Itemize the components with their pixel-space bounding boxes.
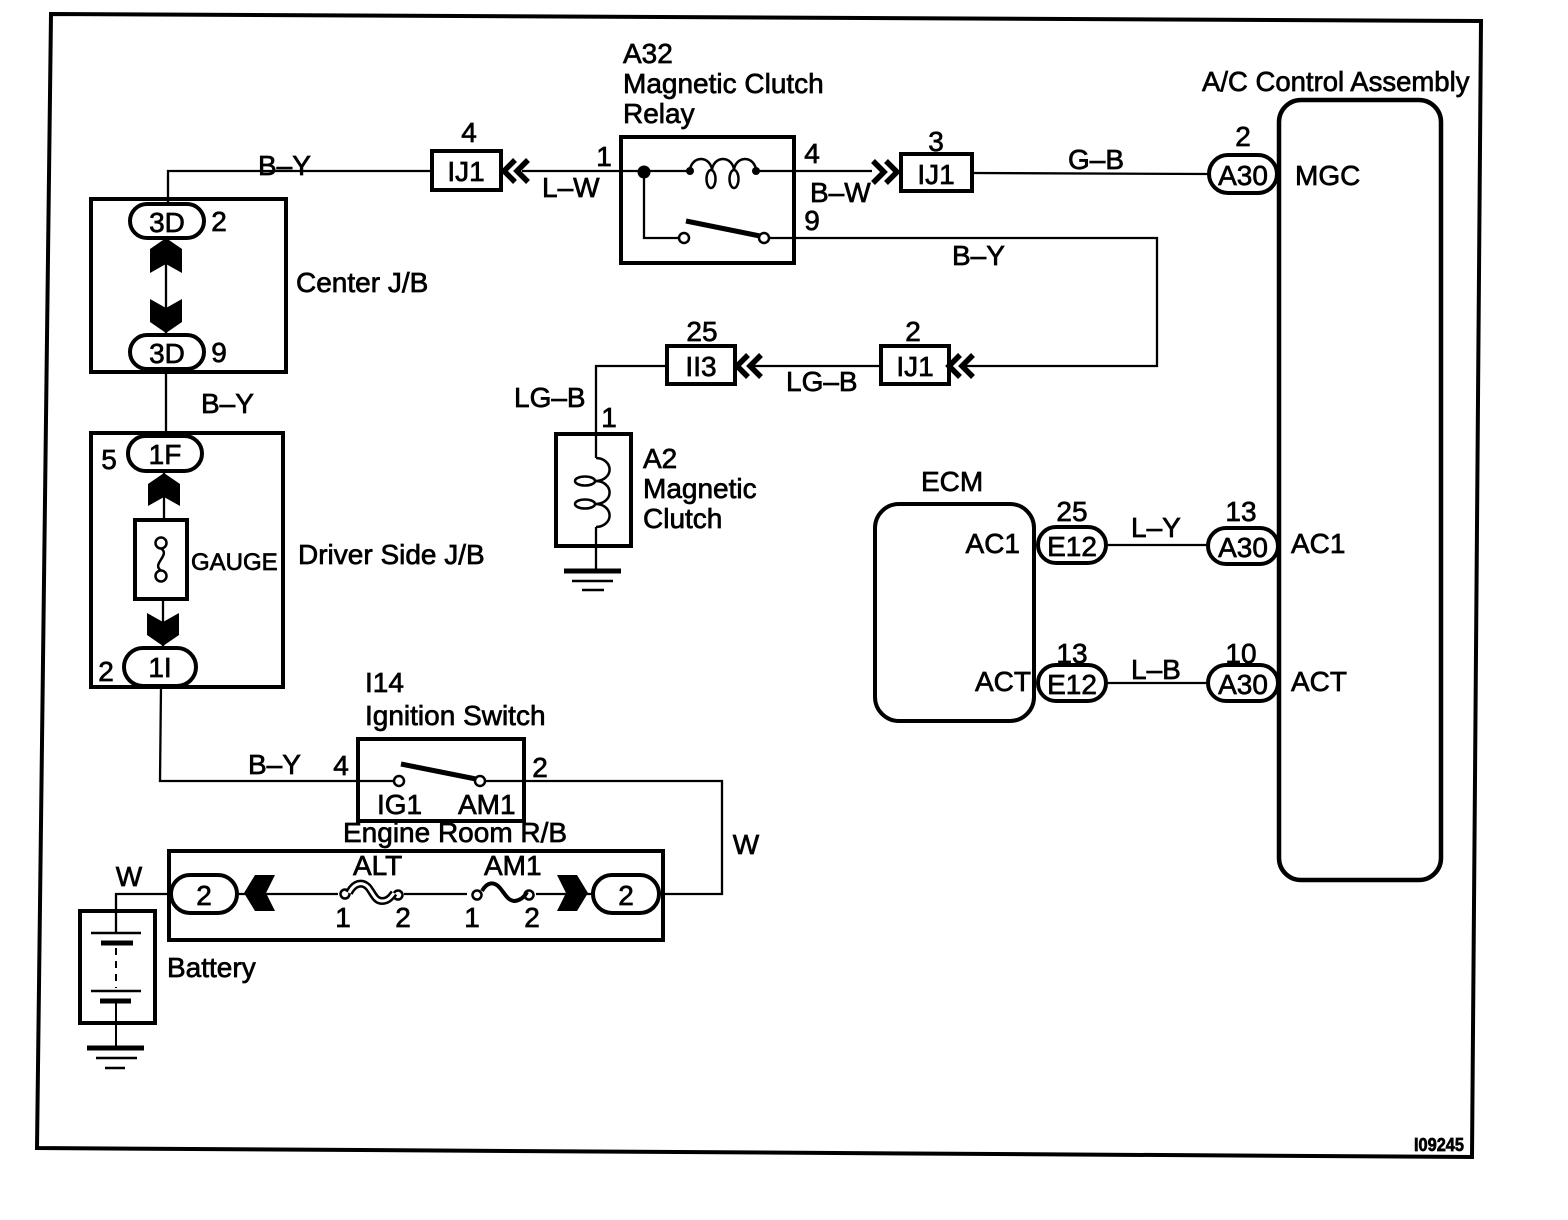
svg-text:2: 2	[905, 316, 921, 347]
svg-text:G–B: G–B	[1068, 144, 1124, 175]
svg-text:B–Y: B–Y	[248, 749, 301, 780]
svg-text:Magnetic Clutch: Magnetic Clutch	[623, 68, 824, 99]
svg-text:9: 9	[211, 337, 227, 368]
svg-text:25: 25	[1056, 496, 1087, 527]
svg-text:ACT: ACT	[1291, 666, 1347, 697]
svg-text:2: 2	[395, 902, 411, 933]
svg-text:Center J/B: Center J/B	[296, 267, 428, 298]
svg-text:B–Y: B–Y	[952, 240, 1005, 271]
svg-text:2: 2	[532, 752, 548, 783]
svg-text:LG–B: LG–B	[514, 382, 586, 413]
svg-text:B–Y: B–Y	[201, 388, 254, 419]
svg-text:Ignition Switch: Ignition Switch	[365, 700, 546, 731]
svg-text:GAUGE: GAUGE	[191, 549, 278, 576]
svg-text:2: 2	[196, 880, 212, 911]
svg-text:AM1: AM1	[484, 850, 542, 881]
svg-text:MGC: MGC	[1295, 160, 1360, 191]
svg-text:1I: 1I	[148, 652, 171, 683]
svg-text:4: 4	[804, 138, 820, 169]
svg-text:3: 3	[928, 126, 944, 157]
svg-text:Driver Side J/B: Driver Side J/B	[298, 539, 485, 570]
svg-text:4: 4	[333, 750, 349, 781]
svg-text:Engine Room R/B: Engine Room R/B	[343, 817, 567, 848]
svg-text:1: 1	[596, 141, 612, 172]
svg-text:IJ1: IJ1	[447, 156, 484, 187]
svg-text:ALT: ALT	[353, 850, 402, 881]
svg-text:E12: E12	[1047, 531, 1097, 562]
svg-text:E12: E12	[1047, 669, 1097, 700]
svg-text:ECM: ECM	[921, 466, 983, 497]
svg-text:A30: A30	[1218, 669, 1268, 700]
svg-text:LG–B: LG–B	[786, 366, 858, 397]
svg-text:A30: A30	[1218, 532, 1268, 563]
svg-text:Clutch: Clutch	[643, 503, 722, 534]
svg-text:13: 13	[1225, 496, 1256, 527]
svg-text:25: 25	[686, 316, 717, 347]
svg-text:2: 2	[524, 902, 540, 933]
svg-text:2: 2	[98, 656, 114, 687]
svg-text:1: 1	[601, 402, 617, 433]
svg-text:L–B: L–B	[1131, 654, 1181, 685]
svg-text:A2: A2	[643, 443, 677, 474]
svg-text:A30: A30	[1218, 160, 1268, 191]
svg-text:I09245: I09245	[1414, 1135, 1464, 1155]
svg-text:A/C Control Assembly: A/C Control Assembly	[1202, 66, 1470, 97]
svg-text:3D: 3D	[149, 338, 185, 369]
svg-text:3D: 3D	[149, 207, 185, 238]
svg-text:2: 2	[211, 206, 227, 237]
svg-text:4: 4	[461, 117, 477, 148]
svg-text:L–Y: L–Y	[1131, 512, 1181, 543]
svg-text:IJ1: IJ1	[896, 351, 933, 382]
svg-text:ACT: ACT	[975, 666, 1031, 697]
svg-text:II3: II3	[685, 351, 716, 382]
svg-text:10: 10	[1225, 638, 1256, 669]
svg-text:IJ1: IJ1	[917, 159, 954, 190]
svg-text:9: 9	[804, 205, 820, 236]
svg-text:AM1: AM1	[458, 789, 516, 820]
svg-text:B–W: B–W	[810, 177, 871, 208]
svg-text:Magnetic: Magnetic	[643, 473, 757, 504]
svg-text:AC1: AC1	[966, 528, 1020, 559]
svg-text:AC1: AC1	[1291, 528, 1345, 559]
svg-text:W: W	[733, 829, 760, 860]
svg-text:5: 5	[101, 444, 117, 475]
svg-text:13: 13	[1056, 638, 1087, 669]
svg-text:W: W	[116, 861, 143, 892]
svg-text:B–Y: B–Y	[258, 150, 311, 181]
svg-text:Relay: Relay	[623, 98, 695, 129]
svg-text:1: 1	[335, 902, 351, 933]
svg-text:1: 1	[464, 902, 480, 933]
svg-text:A32: A32	[623, 38, 673, 69]
svg-text:L–W: L–W	[542, 172, 600, 203]
svg-text:1F: 1F	[149, 439, 182, 470]
svg-text:Battery: Battery	[167, 952, 256, 983]
svg-text:2: 2	[1235, 121, 1251, 152]
svg-text:2: 2	[618, 880, 634, 911]
svg-text:I14: I14	[365, 667, 404, 698]
svg-text:IG1: IG1	[377, 789, 422, 820]
